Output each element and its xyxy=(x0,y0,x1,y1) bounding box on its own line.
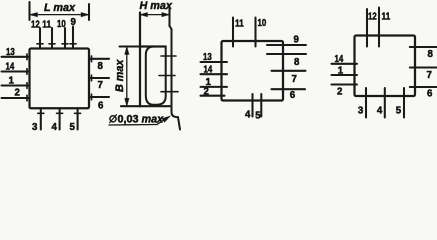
label 0,03 max xyxy=(110,114,165,126)
svg-text:14: 14 xyxy=(6,61,15,72)
svg-text:12: 12 xyxy=(368,12,377,23)
svg-text:5: 5 xyxy=(70,122,76,132)
svg-text:9: 9 xyxy=(71,17,77,28)
package body U1 (top view) xyxy=(30,49,90,109)
svg-text:7: 7 xyxy=(98,80,103,91)
lead (side view) xyxy=(170,26,181,130)
dimension B max xyxy=(120,47,171,107)
pin 9 xyxy=(70,27,76,49)
pin 12 xyxy=(37,28,43,49)
svg-text:7: 7 xyxy=(292,74,297,85)
svg-text:5: 5 xyxy=(396,106,402,117)
svg-text:9: 9 xyxy=(294,34,300,45)
svg-text:12: 12 xyxy=(31,19,40,30)
svg-text:B max: B max xyxy=(114,59,126,92)
svg-text:2: 2 xyxy=(204,86,209,97)
pin 6 (U3) xyxy=(410,86,437,88)
pin 4 xyxy=(57,108,63,129)
lead tick 2 xyxy=(159,75,175,77)
svg-text:10: 10 xyxy=(258,18,267,29)
svg-text:L max: L max xyxy=(44,2,76,14)
pin 13 xyxy=(2,54,30,60)
svg-text:7: 7 xyxy=(427,70,432,81)
pin 2 (U3) xyxy=(332,83,358,85)
pin 5 (U3) xyxy=(403,88,405,118)
svg-text:13: 13 xyxy=(203,52,212,63)
pin 13 (U2) xyxy=(201,61,228,63)
package body side view xyxy=(140,13,166,107)
pin 6 (U2) xyxy=(272,88,306,90)
svg-text:8: 8 xyxy=(428,49,434,60)
svg-text:H max: H max xyxy=(140,0,173,12)
pin 4 (U3) xyxy=(384,88,386,118)
pin 10 (U2) xyxy=(254,18,256,47)
svg-text:3: 3 xyxy=(358,106,364,117)
svg-text:14: 14 xyxy=(204,64,213,75)
pin 8 xyxy=(89,56,109,62)
pin 7 (U2) xyxy=(272,70,306,72)
svg-text:6: 6 xyxy=(290,90,296,101)
svg-text:11: 11 xyxy=(235,18,244,29)
pin 8 (U2) xyxy=(267,53,306,55)
pin 11 xyxy=(49,28,55,49)
svg-text:10: 10 xyxy=(57,19,66,30)
svg-text:4: 4 xyxy=(377,106,383,117)
svg-text:11: 11 xyxy=(382,12,391,23)
pin 5 (U2) xyxy=(260,94,262,117)
svg-text:11: 11 xyxy=(42,20,51,31)
note diameter 0,03 max xyxy=(109,116,171,125)
svg-text:14: 14 xyxy=(335,54,344,65)
svg-text:4: 4 xyxy=(245,109,251,120)
pin 14 (U3) xyxy=(332,63,358,65)
svg-text:5: 5 xyxy=(255,110,261,121)
pin 7 xyxy=(89,75,109,81)
dimension L max xyxy=(30,2,90,20)
pin 11 (U3) xyxy=(378,8,380,47)
pin 2 (U2) xyxy=(201,95,225,97)
pin 5 xyxy=(75,108,81,129)
pin 14 xyxy=(2,69,30,75)
pin 6 xyxy=(89,94,109,100)
svg-text:8: 8 xyxy=(98,61,104,72)
pin 3 xyxy=(38,108,44,129)
pin 4 (U2) xyxy=(251,94,253,117)
svg-text:1: 1 xyxy=(338,65,344,76)
pin 1 xyxy=(2,83,30,89)
pin 11 (U2) xyxy=(232,18,234,47)
svg-text:4: 4 xyxy=(52,122,58,132)
svg-text:0,03 max: 0,03 max xyxy=(118,114,165,126)
package body U2 (top view) xyxy=(222,41,284,101)
pin 7 (U3) xyxy=(410,66,437,68)
svg-text:3: 3 xyxy=(32,122,38,132)
pin 10 xyxy=(62,28,68,49)
pin 1 (U3) xyxy=(332,74,358,76)
svg-text:2: 2 xyxy=(15,87,20,98)
svg-text:8: 8 xyxy=(294,57,300,68)
svg-text:1: 1 xyxy=(9,75,15,86)
package body U3 (top view) xyxy=(355,36,416,97)
pin 8 (U3) xyxy=(410,46,437,48)
svg-text:2: 2 xyxy=(337,86,342,97)
pin 3 (U3) xyxy=(365,88,367,118)
svg-text:6: 6 xyxy=(427,89,433,100)
lead tick 3 xyxy=(161,91,178,93)
pin 2 xyxy=(2,95,30,101)
svg-text:6: 6 xyxy=(98,101,104,112)
pin 9 (U2) xyxy=(267,44,306,46)
lead tick 1 xyxy=(161,55,176,57)
pin 1 (U2) xyxy=(201,86,228,88)
pin 14 (U2) xyxy=(201,73,228,75)
svg-text:13: 13 xyxy=(6,47,15,58)
dimension H max xyxy=(140,8,170,26)
pin 12 (U3) xyxy=(366,9,368,47)
